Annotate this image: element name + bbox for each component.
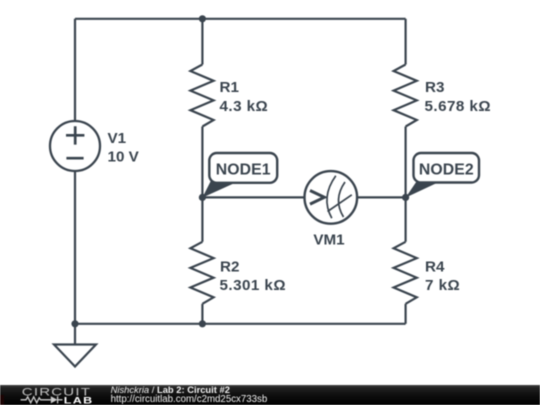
VM1 meter arc 2 (339, 182, 345, 217)
V1 minus sign (66, 157, 83, 160)
wire R4 to bottom (405, 304, 407, 324)
junction dot NODE1 (199, 194, 206, 201)
wire middle branch top lead (201, 19, 203, 65)
NODE1 flag tail (202, 182, 238, 198)
footer bar (0, 385, 540, 405)
V1 plus sign (66, 126, 84, 144)
svg-text:NODE1: NODE1 (216, 162, 271, 179)
wire left branch upper (74, 19, 76, 121)
NODE2 label box (414, 153, 480, 183)
svg-text:10 V: 10 V (108, 149, 140, 166)
wire R3 to NODE2 (405, 127, 407, 198)
VM1 meter needle (328, 195, 352, 212)
junction dot bottom middle (199, 320, 206, 327)
VM1 input chevron (310, 191, 324, 205)
junction dot bottom left (71, 320, 78, 327)
svg-text:R1: R1 (220, 79, 240, 96)
wire R1 to NODE1 (201, 127, 203, 198)
wire NODE1 to VM1 (202, 196, 304, 198)
NODE2 flag tail (406, 182, 440, 198)
ground stub (74, 324, 76, 345)
voltmeter VM1 circle (305, 171, 358, 224)
wire NODE1 to R2 (201, 197, 203, 241)
svg-text:VM1: VM1 (313, 231, 345, 248)
resistor R3 (394, 65, 417, 127)
logo diode triangle (51, 396, 58, 403)
wire NODE2 to R4 (405, 197, 407, 241)
logo schematic squiggle (21, 396, 63, 403)
wire top horizontal (75, 18, 406, 20)
CircuitLab wordmark CIRCUIT (22, 385, 91, 398)
svg-text:LAB: LAB (64, 396, 94, 405)
footer red sliver (0, 395, 4, 405)
NODE1 label box (209, 153, 277, 183)
logo LAB text (64, 396, 94, 405)
svg-text:R4: R4 (425, 259, 445, 276)
VM1 meter arc 1 (327, 176, 336, 219)
wire left branch lower (74, 171, 76, 324)
resistor R2 (190, 242, 213, 304)
svg-text:4.3 kΩ: 4.3 kΩ (220, 98, 269, 115)
resistor R1 (190, 65, 213, 127)
wire bottom horizontal (75, 323, 406, 325)
voltage source V1 circle (50, 121, 100, 171)
wire right branch top lead (405, 19, 407, 65)
svg-text:7 kΩ: 7 kΩ (425, 277, 460, 294)
svg-text:http://circuitlab.com/c2md25cx: http://circuitlab.com/c2md25cx733sb (111, 394, 268, 405)
svg-text:R2: R2 (220, 259, 239, 276)
wire R2 to bottom (201, 304, 203, 324)
ground triangle (54, 345, 96, 367)
wire VM1 to NODE2 (357, 196, 406, 198)
svg-text:R3: R3 (425, 79, 444, 96)
junction dot NODE2 (402, 194, 409, 201)
svg-text:NODE2: NODE2 (419, 162, 474, 179)
svg-text:V1: V1 (108, 130, 127, 147)
svg-text:5.301 kΩ: 5.301 kΩ (220, 277, 286, 294)
junction dot top middle (199, 15, 206, 22)
svg-text:5.678 kΩ: 5.678 kΩ (425, 98, 491, 115)
resistor R4 (394, 242, 417, 304)
